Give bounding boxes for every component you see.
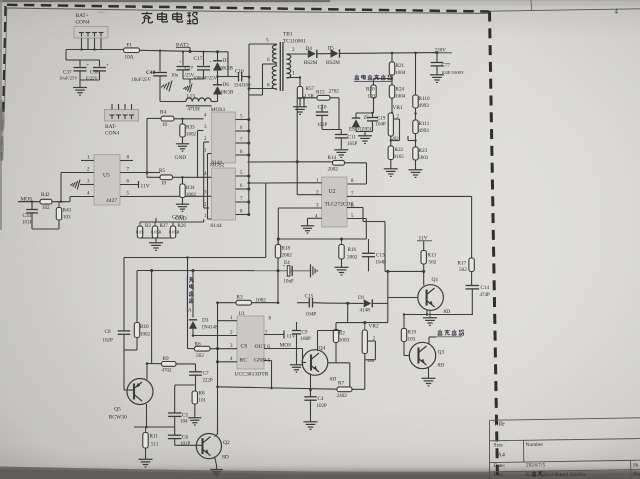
svg-text:C11: C11 (348, 135, 357, 141)
svg-text:MOS: MOS (280, 343, 292, 349)
svg-text:4993: 4993 (419, 128, 430, 134)
transformer TB1 core (280, 42, 283, 91)
title block Title text (494, 421, 505, 427)
svg-text:E:\: E:\ (526, 472, 533, 478)
wire Q5 base (124, 389, 134, 391)
svg-text:47UH: 47UH (188, 108, 201, 113)
wire R15 to C10 column (330, 98, 339, 130)
transformer TB1 labels (283, 32, 306, 45)
svg-text:R24: R24 (396, 87, 405, 93)
svg-text:1.5R: 1.5R (304, 94, 314, 100)
svg-text:R5: R5 (159, 168, 165, 174)
svg-text:A4: A4 (498, 452, 505, 458)
svg-text:104P: 104P (376, 123, 387, 128)
U1 pin8 number (269, 317, 272, 322)
U1 pin2 wire (192, 331, 237, 337)
svg-text:202: 202 (368, 358, 376, 363)
svg-text:9165: 9165 (394, 154, 405, 160)
resistor R33 (180, 118, 197, 144)
title block Date row (494, 463, 546, 469)
U1 pin5 wire (264, 361, 272, 389)
wire L13 to D6 node (211, 101, 217, 103)
ground U2 pin4 (301, 226, 314, 233)
wire R4 left to rail (146, 118, 161, 173)
resistor R7 (337, 381, 353, 400)
U1 pin4 wire (216, 357, 237, 363)
svg-text:103: 103 (408, 337, 416, 343)
wire Q2 collector (215, 426, 218, 437)
svg-text:10A: 10A (125, 55, 134, 61)
wire caps bottom rail to L13 (160, 79, 204, 102)
wire Q4 collector up (318, 331, 342, 352)
svg-text:C8: C8 (105, 329, 111, 335)
label 电容电压检测 (354, 75, 392, 82)
wire 11V to R13 (423, 241, 425, 251)
wire bus to C37 (66, 50, 100, 67)
svg-text:UCC3813DTR: UCC3813DTR (235, 372, 269, 378)
svg-text:1004: 1004 (395, 94, 406, 100)
wire Q3 emitter (429, 363, 445, 379)
capacitor C6 (168, 427, 191, 447)
wire R9 row (146, 362, 162, 365)
wire U2 pin1 feed (266, 182, 297, 184)
resistor R9 (162, 356, 177, 374)
wire VR2 to R7 (364, 354, 366, 390)
label 10uF/25V C38 (86, 76, 98, 81)
svg-text:11V: 11V (141, 184, 150, 190)
svg-text:1002: 1002 (186, 193, 197, 198)
resistor R22 (388, 146, 404, 169)
U5 pin3 ground slanted (70, 180, 94, 190)
U1 pin7 wire 11V (264, 331, 296, 340)
svg-text:1003: 1003 (339, 338, 350, 344)
svg-text:8D: 8D (444, 309, 451, 315)
svg-text:R16: R16 (348, 247, 357, 253)
U5 pin2 wire (61, 168, 94, 173)
svg-text:R19: R19 (408, 330, 417, 336)
svg-text:CON4: CON4 (76, 20, 90, 26)
wire Q5 emitter row (134, 426, 175, 429)
svg-text:C19: C19 (377, 117, 386, 122)
wire R9 right to C7 (176, 363, 196, 365)
svg-text:C16: C16 (235, 69, 244, 75)
wire U2 pin1 (297, 162, 322, 195)
U2 pin numbers (315, 179, 354, 220)
transistor Q3 (409, 342, 444, 368)
svg-text:R4: R4 (160, 110, 166, 116)
resistor R110 (413, 95, 430, 109)
MOS1 right pins to bus (236, 115, 251, 157)
svg-text:C48: C48 (146, 70, 156, 76)
label 10uF/25V C48 (132, 78, 152, 83)
U5 pin6 11V (120, 180, 150, 190)
diode D3 1N4148 (189, 318, 218, 336)
svg-text:8D: 8D (438, 363, 445, 369)
labels BAT- CON4 (105, 124, 119, 137)
wire 220V to R110 (415, 53, 417, 95)
capacitor C27 (171, 59, 195, 79)
svg-text:BAT-: BAT- (105, 124, 117, 130)
capacitor C48 (146, 70, 167, 83)
capacitor C9 (292, 322, 311, 365)
svg-text:Q4: Q4 (319, 346, 326, 352)
wire Q1 emitter row 8D (404, 309, 473, 316)
svg-text:C13: C13 (376, 253, 385, 259)
svg-text:104P: 104P (376, 261, 387, 266)
transformer pin numbers (266, 38, 295, 89)
wire pin5 loop (249, 44, 277, 91)
svg-text:4148: 4148 (360, 308, 371, 314)
ground R33 (175, 144, 190, 161)
svg-text:Q2: Q2 (223, 440, 230, 446)
resistor R42 (40, 192, 52, 211)
wire bus branch to U2 feed (248, 182, 266, 185)
svg-text:TC110001: TC110001 (283, 39, 306, 45)
ground C48 slanted (161, 81, 172, 92)
svg-text:R17: R17 (458, 261, 467, 267)
wire D7 to D6 (216, 70, 218, 85)
label 过充检测 (436, 330, 464, 337)
svg-text:103: 103 (63, 216, 71, 221)
svg-text:10u: 10u (171, 74, 179, 79)
wire R4 to MOS1 pin4 (174, 118, 204, 120)
ground BAT2 caps slanted (183, 84, 192, 93)
ground Z5 C19 (358, 136, 372, 144)
svg-text:Q3: Q3 (438, 350, 445, 356)
wire U2 pin6 path (347, 208, 385, 272)
svg-text:10uF: 10uF (284, 280, 295, 285)
svg-text:U1: U1 (239, 311, 246, 317)
svg-text:4427: 4427 (106, 198, 117, 204)
resistor R24 (389, 85, 405, 100)
wire long rail lower (137, 269, 311, 364)
svg-text:R2: R2 (145, 224, 151, 229)
svg-text:A: A (188, 309, 192, 314)
resistor R15 (297, 89, 339, 107)
svg-text:1002: 1002 (186, 133, 197, 138)
U5 pin1 stub (81, 156, 94, 161)
svg-text:CON4: CON4 (105, 131, 119, 137)
svg-text:C7: C7 (203, 371, 209, 377)
resistor R34 (180, 176, 197, 204)
wire U2 pin4 ground (308, 218, 322, 225)
wire Q3 collector to label (429, 337, 436, 344)
svg-text:R15: R15 (316, 90, 325, 96)
ground R34 (175, 204, 189, 222)
diode D6 (213, 82, 234, 96)
svg-text:103: 103 (368, 94, 376, 100)
svg-text:R20: R20 (366, 87, 375, 93)
wire secondary pin2 to D4 (287, 53, 308, 55)
label 充电开关A vertical (187, 276, 193, 314)
wire Q2 collector column (217, 303, 219, 434)
connector BAT+ CON4 (74, 27, 108, 39)
ground R23 (409, 170, 423, 178)
resistor R16 (339, 239, 358, 267)
svg-text:C5: C5 (182, 413, 188, 419)
resistor R17 (458, 196, 475, 273)
svg-text:R8: R8 (199, 391, 205, 397)
photo top edge (0, 0, 640, 6)
printed frame top-right with zone number 4 (489, 0, 640, 16)
wire Q1 emitter down (426, 310, 428, 315)
photo left edge (0, 0, 4, 230)
svg-text:8D: 8D (222, 455, 229, 461)
capacitor C5 (168, 413, 189, 428)
resistor R27 (151, 222, 168, 238)
svg-text:8: 8 (267, 83, 270, 89)
wire Q4 emitter to rail (311, 374, 337, 391)
wire R3 right to pin8 column (252, 301, 280, 304)
capacitor C38 (87, 62, 110, 80)
svg-text:R42: R42 (41, 192, 50, 198)
svg-text:202: 202 (392, 137, 400, 142)
svg-text:474P: 474P (480, 293, 491, 298)
wire R20 bottom to zener row (356, 98, 374, 113)
wire MOS drain bus (248, 89, 250, 215)
svg-text:102: 102 (42, 206, 50, 211)
wire R14 row (248, 160, 333, 163)
title 充电电路 (142, 12, 198, 24)
capacitor C11 (322, 130, 358, 150)
transistor Q4 (302, 346, 328, 376)
sheet border dashed top (7, 5, 489, 12)
svg-text:R2: R2 (339, 331, 345, 337)
svg-text:222P: 222P (203, 379, 214, 384)
wire R42 to U5 pin4 (52, 197, 70, 203)
svg-text:C34: C34 (23, 213, 32, 219)
svg-text:6K5B: 6K5B (221, 90, 234, 96)
svg-text:U2: U2 (329, 189, 336, 195)
svg-text:Q1: Q1 (432, 277, 439, 283)
svg-text:C77: C77 (442, 63, 451, 69)
ic MOS1 6144 (211, 107, 236, 163)
svg-text:Title: Title (494, 421, 505, 427)
fuse F1 label (127, 43, 133, 49)
wire D4 to D5 (317, 53, 331, 55)
svg-text:6: 6 (351, 204, 354, 210)
svg-text:R18: R18 (282, 246, 291, 252)
svg-text:Q5: Q5 (114, 407, 121, 413)
svg-text:101P: 101P (22, 221, 33, 226)
wire pin6 row to Q1 column (385, 270, 424, 273)
svg-text:R11: R11 (150, 434, 159, 440)
svg-text:D3: D3 (202, 318, 209, 324)
wire C5 row to R8 column (175, 385, 195, 413)
fuse F1 (124, 48, 140, 61)
svg-text:R26: R26 (178, 224, 187, 229)
diode D1 (358, 295, 372, 314)
svg-text:R27: R27 (160, 224, 169, 229)
wire bottom rail (216, 386, 337, 392)
svg-text:R23: R23 (419, 148, 428, 154)
wire BAT+ bus (66, 48, 124, 50)
wire R14 vertical from R15 (296, 98, 298, 162)
svg-text:0.05R: 0.05R (151, 230, 162, 235)
svg-text:VR2: VR2 (369, 324, 379, 330)
svg-text:102P: 102P (317, 404, 328, 409)
svg-text:BCW30: BCW30 (109, 415, 128, 421)
resistor R20 (366, 85, 376, 100)
capacitor C10 (316, 105, 328, 130)
ic U5 4427 (94, 155, 120, 206)
svg-text:D5: D5 (328, 46, 335, 52)
wire C6 to Q2 base (175, 444, 203, 446)
ground Q1 (423, 310, 437, 325)
diode D4 (304, 46, 318, 66)
capacitor C37 (63, 68, 87, 81)
svg-text:R21: R21 (396, 63, 405, 69)
wire VR1 bottom to R22 (390, 136, 400, 146)
resistor R2 (333, 330, 349, 363)
wire R2 row (336, 303, 388, 329)
svg-text:10uF/25V: 10uF/25V (132, 78, 152, 83)
svg-text:R34: R34 (186, 185, 195, 191)
svg-text:10uF/25V: 10uF/25V (59, 76, 78, 81)
svg-text:2024/7/5: 2024/7/5 (526, 463, 545, 469)
wire U2 pin7 long (347, 195, 472, 197)
svg-text:R33: R33 (186, 125, 195, 131)
resistor R11 (143, 427, 159, 459)
resistor R14 (328, 155, 345, 173)
svg-text:104P: 104P (306, 312, 317, 318)
svg-text:BAT+: BAT+ (76, 13, 89, 19)
connector BAT- CON4 (105, 104, 139, 121)
svg-text:2002: 2002 (347, 255, 358, 261)
wire 220V rail (340, 51, 439, 54)
transformer TB1 secondary winding (287, 54, 291, 78)
label 10uF/25V C37 (59, 76, 78, 81)
wire U2 pin5 down (347, 219, 366, 240)
capacitor C13 (362, 239, 386, 271)
wire Q2 emitter (215, 457, 217, 470)
wires BAT+ pins to bus (82, 38, 102, 50)
transformer TB1 primary winding (272, 44, 276, 90)
wire long rail upper (124, 183, 266, 349)
wire rail corner to C16 row (218, 52, 229, 77)
svg-text:4993: 4993 (419, 103, 430, 109)
svg-text:0.05: 0.05 (136, 230, 144, 235)
svg-text:101P: 101P (180, 442, 191, 447)
U1 pin1 wire (218, 316, 238, 321)
sheet border solid line top (7, 8, 489, 13)
svg-text:2002: 2002 (282, 253, 293, 259)
ground R11 (139, 459, 153, 467)
wire R18 to U1 pin8 (277, 271, 279, 303)
wire MOS1 pin1 down (208, 154, 212, 220)
capacitor C19 (367, 112, 386, 132)
svg-text:C27: C27 (185, 66, 194, 72)
svg-text:HS2M: HS2M (304, 60, 318, 66)
wire zener C19 bottom rail (356, 132, 373, 136)
svg-text:562: 562 (429, 260, 437, 266)
sheet border dashed left (2, 6, 6, 165)
resistor R5 (159, 168, 173, 187)
label UCC3813DTR (235, 372, 269, 378)
transistor Q1 (418, 277, 444, 310)
ic U2 TLC272CDR (322, 177, 355, 227)
svg-text:104: 104 (180, 420, 188, 425)
svg-text:10: 10 (162, 123, 168, 128)
svg-text:102P/1000V: 102P/1000V (441, 70, 465, 75)
wire R13 to Q1 collector (422, 264, 425, 286)
svg-text:TLC272CDR: TLC272CDR (325, 202, 355, 208)
svg-text:6144: 6144 (212, 160, 223, 166)
sheet border dashed right (490, 12, 498, 479)
svg-text:C6: C6 (182, 435, 188, 441)
svg-text:Number: Number (526, 442, 544, 448)
label 11V net (417, 236, 432, 242)
MOS1 left pin numbers (204, 114, 207, 154)
resistor R10 (124, 322, 151, 350)
resistor R13 (421, 251, 437, 266)
ic MOS2 6144 (210, 160, 236, 229)
svg-text:2702: 2702 (329, 89, 340, 95)
svg-text:R111: R111 (419, 121, 430, 127)
wire D6 to bottom rail (217, 94, 219, 102)
label 220V (433, 48, 452, 54)
ic U1 UCC3813DTR (237, 311, 264, 369)
resistor R25 (136, 222, 151, 238)
svg-text:C14: C14 (481, 285, 490, 291)
svg-text:Size: Size (494, 442, 504, 448)
wire BAT2 stub (188, 48, 191, 54)
label MOS net (18, 197, 36, 203)
svg-text:2: 2 (292, 47, 295, 53)
ground sense resistors (149, 243, 163, 251)
wire Q5 emitter down (146, 404, 148, 427)
svg-text:R57: R57 (306, 86, 315, 92)
svg-text:RC: RC (240, 358, 248, 364)
transistor Q5 pnp (109, 379, 154, 421)
svg-text:D4: D4 (306, 46, 313, 52)
svg-text:511: 511 (151, 443, 159, 448)
title block frame (490, 418, 640, 479)
svg-text:6: 6 (267, 57, 270, 63)
wire sense bottom rail (140, 238, 173, 243)
svg-text:1: 1 (292, 71, 295, 77)
zener Z5 ESD1Z05C (349, 113, 374, 133)
svg-text:2002: 2002 (328, 167, 339, 173)
ground Q3 (422, 378, 436, 386)
ground Q2 (210, 470, 223, 477)
svg-text:2024\Sheet1.SchDoc: 2024\Sheet1.SchDoc (543, 472, 587, 478)
connector BAT+ CON4 labels (76, 13, 90, 26)
U5 pin5 wire (120, 192, 203, 197)
svg-text:6144: 6144 (211, 223, 222, 229)
svg-text:5: 5 (266, 38, 269, 44)
svg-text:101: 101 (199, 399, 207, 404)
inductor L13 (186, 94, 212, 113)
photo left smudges (0, 10, 105, 156)
svg-text:TB1: TB1 (283, 32, 293, 38)
label GND sense (172, 215, 184, 221)
resistor R23 (413, 147, 429, 170)
svg-text:4: 4 (615, 9, 619, 16)
svg-text:5601: 5601 (418, 155, 429, 161)
capacitor C17 (193, 56, 218, 82)
label BAT2 (176, 43, 190, 49)
svg-text:1004: 1004 (395, 70, 406, 76)
capacitor C16 (228, 69, 251, 89)
svg-text:Sh: Sh (633, 463, 639, 468)
ground below C37 C38 (73, 88, 87, 96)
svg-text:R13: R13 (428, 253, 437, 259)
svg-text:R7: R7 (338, 381, 344, 387)
wire R2 bottom row (328, 363, 350, 388)
capacitor C15 (297, 294, 325, 318)
svg-text:102P: 102P (103, 339, 114, 344)
